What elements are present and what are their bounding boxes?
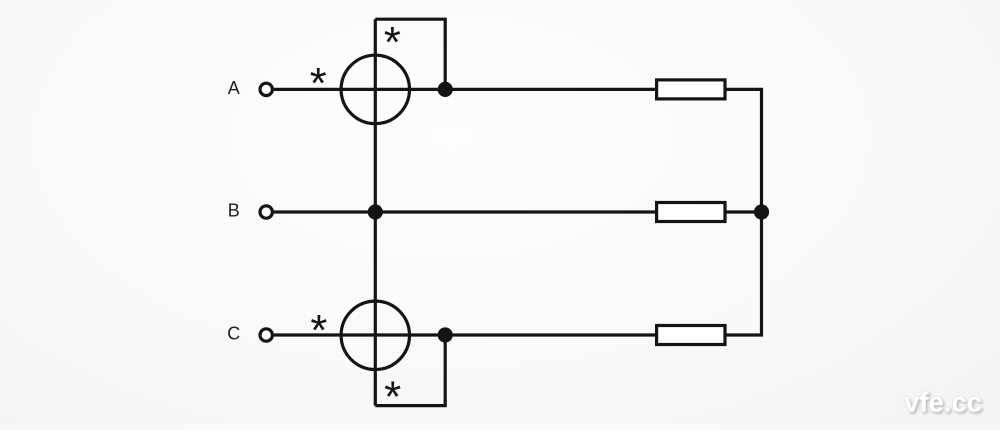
resistor RB <box>657 203 725 222</box>
svg-text:vfe.cc: vfe.cc <box>904 387 982 418</box>
wire RB to bus <box>725 210 762 213</box>
resistor RA <box>657 80 725 99</box>
node dot A <box>438 82 453 97</box>
svg-text:C: C <box>227 323 240 343</box>
wattmeter W1 <box>341 55 409 123</box>
W2 voltage loop wire <box>375 335 445 406</box>
resistor RC <box>657 326 725 345</box>
potential lead wire (vertical) <box>374 19 377 405</box>
node dot B <box>368 204 383 219</box>
wire B <box>274 210 656 213</box>
svg-text:*: * <box>310 60 327 108</box>
wire A <box>274 88 656 91</box>
node dot bus <box>754 204 769 219</box>
wire C <box>274 333 656 336</box>
wattmeter W2 <box>341 301 409 369</box>
terminal A <box>260 83 272 95</box>
W1 voltage loop wire <box>375 19 445 89</box>
node dot C <box>438 327 453 342</box>
svg-text:B: B <box>228 200 240 220</box>
svg-text:*: * <box>310 307 327 355</box>
terminal B <box>260 206 272 218</box>
svg-text:A: A <box>228 78 240 98</box>
wire RC to bus <box>725 212 762 335</box>
terminal C <box>260 329 272 341</box>
wire RA to bus <box>725 89 762 212</box>
svg-text:*: * <box>384 19 401 67</box>
svg-text:*: * <box>384 373 401 421</box>
